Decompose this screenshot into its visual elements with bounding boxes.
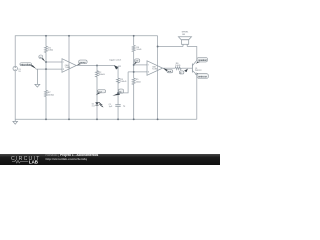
label V1 5V (18, 69, 21, 73)
svg-text:speaker: speaker (198, 60, 207, 62)
wire speaker right to collector (187, 47, 197, 61)
label Q1 (195, 68, 202, 72)
svg-text:ref: ref (136, 60, 139, 63)
wire left rail below V1 (14, 71, 16, 120)
node flag bubble C (77, 60, 88, 66)
resistor R1 (x=46) (45, 36, 48, 120)
svg-text:10kΩ: 10kΩ (136, 81, 141, 83)
footer bar (0, 154, 220, 165)
wire emitter to bottom rail (196, 75, 198, 119)
label OA2 (152, 66, 157, 71)
svg-text:TL081: TL081 (65, 67, 70, 69)
svg-text:100kΩ: 100kΩ (48, 94, 55, 96)
svg-text:1µF: 1µF (109, 106, 113, 108)
voltage source V1 (13, 66, 17, 70)
svg-text:out: out (168, 70, 172, 73)
svg-text:100kΩ: 100kΩ (99, 74, 106, 76)
wire speaker left (158, 46, 183, 48)
svg-text:LAB: LAB (29, 160, 38, 165)
wire LED to bottom rail (96, 105, 98, 119)
switch SW1 right stub (118, 65, 121, 67)
label C1 (109, 104, 126, 108)
wire op-amp1 power (x=69) (68, 36, 70, 120)
wire top rail (15, 36, 157, 67)
op-amp U1 (62, 59, 76, 73)
svg-text:toggle switch: toggle switch (109, 59, 122, 62)
node flag bubble B (39, 55, 46, 62)
label SPKR1 (182, 32, 190, 36)
node junction (157.6,46.5) (157, 46, 159, 48)
svg-text:emissor: emissor (198, 76, 207, 78)
svg-text:10kΩ: 10kΩ (136, 49, 141, 51)
node flag bubble D (96, 90, 106, 96)
svg-text:5V: 5V (18, 71, 21, 73)
node flag bubble I (collector) (196, 57, 208, 63)
ground (bottom left) (13, 119, 18, 124)
wire right power drop (x=157.5) (157, 36, 159, 120)
label R1 (48, 47, 53, 51)
node flag bubble H (179, 69, 188, 75)
resistor R6 (horizontal) (175, 67, 181, 70)
node junction dots (45, 35, 159, 120)
label R6 (175, 63, 180, 67)
node flag bubble F (134, 59, 140, 65)
wire R6 to Q1 base (182, 67, 193, 69)
wire capacitor to bottom rail (117, 106, 119, 119)
node flag bubble A (mic) (20, 63, 37, 69)
svg-text:TL081: TL081 (152, 69, 157, 71)
resistor R3 (x=118.05) (117, 78, 120, 105)
svg-text:100kΩ: 100kΩ (120, 81, 127, 83)
label OA1 (65, 64, 70, 69)
svg-text:1µ: 1µ (123, 105, 126, 107)
label R2 (99, 72, 106, 76)
footer text (46, 154, 99, 161)
wire op-amp1 output (76, 65, 114, 67)
wire op-amp2 upper input (134, 64, 147, 66)
node flag bubble G (163, 68, 173, 73)
resistor R5 (x=133.7 lower) (132, 65, 135, 119)
label R7 (lower resistor on x=46) (48, 92, 55, 97)
resistor R4 (x=133.7 upper) (132, 36, 135, 65)
wire op-amp1 upper input (46, 61, 62, 63)
label D1 (92, 104, 95, 108)
wire bottom rail (15, 118, 197, 120)
transistor Q1 (192, 60, 196, 75)
node flag bubble E (112, 89, 123, 96)
node junction (97,65.5) (96, 65, 98, 67)
svg-text:comp: comp (80, 62, 86, 64)
svg-text:10kΩ: 10kΩ (48, 50, 53, 52)
svg-text:2N2222: 2N2222 (195, 70, 202, 72)
wire op-amp1 lower input (36, 68, 62, 70)
svg-text:red: red (92, 104, 95, 107)
op-amp U2 (147, 61, 163, 76)
speaker SPKR1 (178, 37, 191, 47)
wire feedback loop (118, 72, 128, 93)
wire op-amp2 output (163, 67, 176, 69)
switch SW1 lever (114, 66, 118, 69)
capacitor C1 (115, 105, 120, 107)
svg-text:8Ω: 8Ω (182, 34, 185, 36)
node flag bubble J (emitter) (196, 73, 209, 79)
label R4 (136, 47, 141, 51)
ground (op-amp1 + input) (35, 69, 40, 87)
node junction (118.05,92.9) (117, 92, 119, 94)
label R5 (136, 79, 141, 83)
resistor R2 branch (x=97) (96, 66, 99, 103)
label R3 (120, 79, 127, 83)
CircuitLab logo (0, 154, 44, 165)
LED D1 (95, 102, 103, 107)
svg-text:microfone: microfone (21, 64, 33, 66)
wire op-amp2 lower input (128, 71, 147, 73)
svg-text:100Ω: 100Ω (175, 65, 180, 67)
wire switch branch down (x=118.05) (117, 66, 119, 78)
switch SW1 tail wedge (114, 65, 119, 69)
